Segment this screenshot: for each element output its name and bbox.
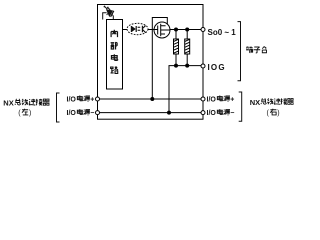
unit outline box [98,5,204,120]
label (左) [18,109,31,117]
label I/O power + right [207,96,235,104]
svg-text:NX: NX [3,99,13,108]
junction: IOG line / R2 [185,64,189,68]
svg-text:−: − [90,110,94,117]
junction: output line / R1 [174,28,178,32]
label I/O power - right [207,109,235,117]
svg-text:+: + [90,97,94,104]
svg-text:I/O: I/O [67,110,77,117]
wire: source over-the-top to I/O power + rail [152,18,167,100]
terminal So0~1 [201,28,205,32]
wire: IOG line [169,66,201,113]
svg-text:So0 ~ 1: So0 ~ 1 [208,28,237,37]
photocoupler U1 [127,23,148,34]
wire: internal circuit to photocoupler [123,29,128,31]
label NX bus connector left (NX总线连接器) [3,99,49,108]
terminal IOG [201,64,205,68]
resistor R2 [185,30,190,66]
svg-text:I/O: I/O [67,97,77,104]
svg-text:I/O: I/O [207,97,217,104]
wire: photocoupler to transistor gate [148,29,155,31]
junction: IOG leg on - rail [167,111,171,115]
svg-text:+: + [230,97,234,104]
label (右) [267,109,280,117]
terminal I/O power + left [96,97,100,101]
svg-text:I/O: I/O [207,110,217,117]
label terminal block (端子台) [246,46,266,52]
transistor Q1 (output MOSFET) [154,22,170,38]
label I/O power - left [67,109,95,117]
bracket: NX bus connector right [239,92,242,121]
junction: output line / R2 [185,28,189,32]
svg-text:): ) [29,110,31,117]
indicator LED D1 (output indicator with light arrows) [103,5,114,19]
svg-text:−: − [230,110,234,117]
terminal I/O power + right [201,97,205,101]
label NX bus connector right (NX总线连接器) [250,98,294,107]
internal circuit block (内部电路) [107,20,123,90]
label I/O power + left [67,96,95,104]
bracket: terminal block [238,22,241,81]
bracket: NX bus connector left [57,93,60,122]
junction: IOG line / R1 [174,64,178,68]
junction: source leg on + rail [150,97,154,101]
I/O power + rail [98,98,204,100]
resistor R1 [174,30,179,66]
wire: drain to output terminal So0 [170,29,201,31]
terminal I/O power - right [201,111,205,115]
terminal I/O power - left [96,111,100,115]
svg-text:NX: NX [250,98,260,107]
I/O power - rail [98,112,204,114]
svg-text:IOG: IOG [208,63,226,72]
svg-text:): ) [277,110,279,117]
